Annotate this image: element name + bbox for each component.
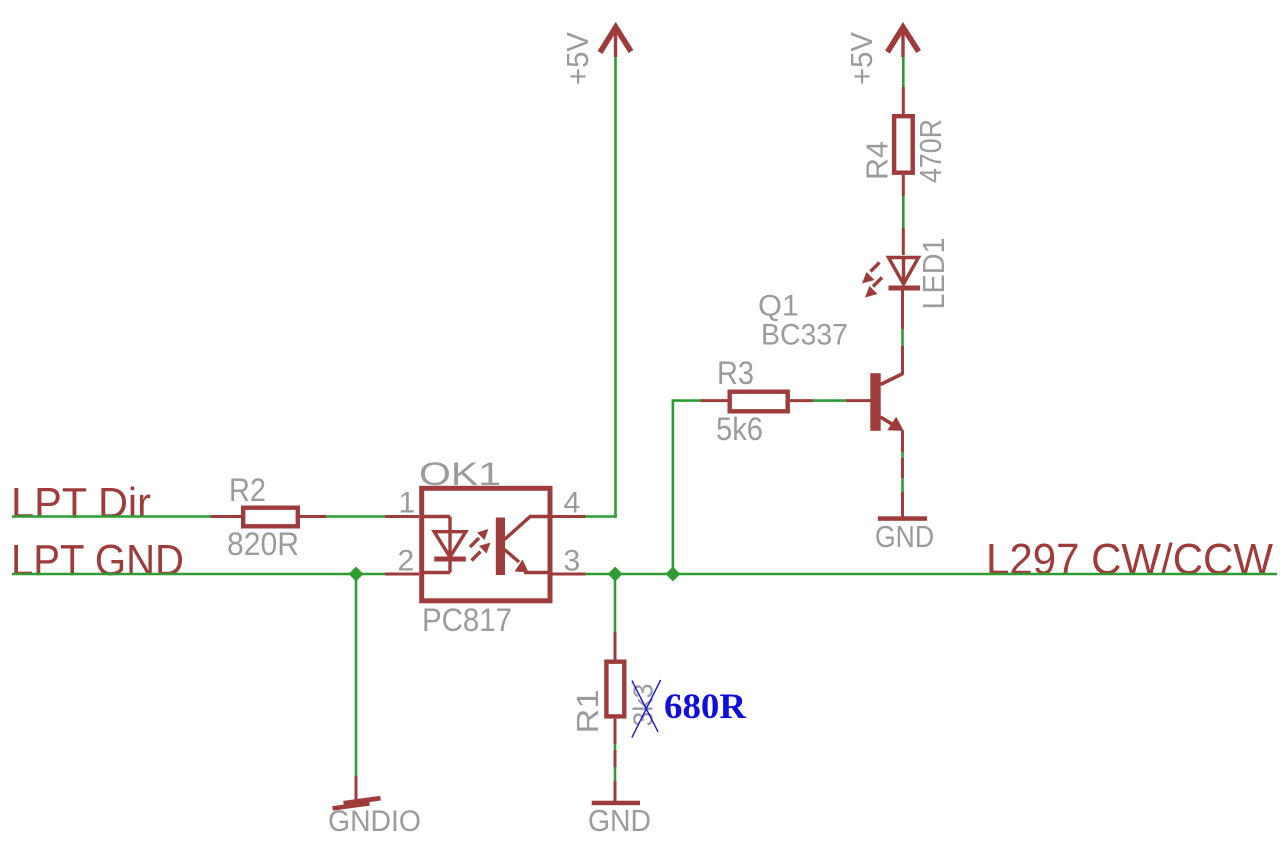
wire R1 drop [614, 576, 617, 632]
svg-text:GND: GND [875, 519, 934, 554]
OK1 internal LED cathode bar [434, 557, 466, 562]
label PC817 [422, 602, 512, 638]
LED LED1 emission arrow lower [865, 278, 882, 298]
pin number 2 [398, 545, 415, 578]
value 3k3 crossed out [628, 684, 659, 727]
label R1 [570, 690, 605, 734]
pin number 1 [399, 487, 416, 520]
wire R1 top lead [614, 632, 617, 660]
annotation 680R blue [664, 686, 747, 726]
ground symbol GND under R1 [592, 801, 640, 806]
net label LPT GND [11, 536, 184, 585]
wire R3 riser top [673, 399, 702, 402]
svg-text:BC337: BC337 [761, 319, 848, 352]
label BC337 [761, 319, 848, 352]
svg-text:+5V: +5V [844, 32, 879, 85]
OK1 internal LED cathode wire [421, 561, 450, 573]
label OK1 [419, 456, 501, 492]
svg-text:4: 4 [564, 487, 581, 520]
wire R2 right pin lead [300, 515, 326, 518]
OK1 light arrow upper [470, 529, 489, 547]
label +5V left [560, 32, 595, 85]
resistor R3 [730, 392, 788, 412]
resistor R2 [243, 508, 298, 527]
label R3 [717, 355, 754, 391]
wire R1 bottom lead [614, 719, 617, 801]
svg-text:OK1: OK1 [419, 456, 501, 492]
resistor R1 [606, 662, 624, 717]
value 470R [913, 119, 948, 183]
LED LED1 triangle [889, 258, 919, 285]
OK1 internal LED triangle [434, 532, 466, 557]
label LED1 [916, 238, 951, 310]
svg-text:L297 CW/CCW: L297 CW/CCW [986, 535, 1273, 584]
power symbol +5V left [600, 27, 631, 57]
svg-text:470R: 470R [913, 119, 948, 183]
pin stub GNDIO [355, 776, 358, 802]
wire R3 riser [672, 399, 675, 574]
svg-text:PC817: PC817 [422, 602, 512, 638]
pin stub OK1 pin 4 [552, 515, 586, 518]
pin stub OK1 pin 1 [385, 515, 419, 518]
pin stub OK1 pin 3 [552, 573, 586, 576]
wire GNDIO drop [355, 576, 358, 776]
LED LED1 emission arrow upper [862, 263, 880, 284]
transistor Q1 collector [881, 288, 904, 385]
svg-text:2: 2 [398, 545, 415, 578]
label GND under Q1 [875, 519, 934, 554]
svg-text:+5V: +5V [560, 32, 595, 85]
OK1 internal LED anode wire [421, 517, 450, 534]
wire LPT GND rail [12, 573, 404, 576]
svg-text:680R: 680R [664, 686, 747, 726]
label R2 [229, 472, 266, 508]
resistor R4 [894, 116, 913, 173]
OK1 light arrow lower [472, 543, 491, 561]
svg-text:R2: R2 [229, 472, 266, 508]
svg-text:LED1: LED1 [916, 238, 951, 310]
svg-text:GNDIO: GNDIO [328, 805, 421, 838]
wire R3 right lead [790, 399, 813, 402]
svg-text:R4: R4 [860, 141, 895, 180]
cross-out X blue [632, 680, 661, 738]
OK1 phototransistor bar [496, 518, 505, 576]
svg-text:LPT Dir: LPT Dir [11, 480, 151, 528]
transistor Q1 emitter [881, 417, 904, 517]
value 5k6 [716, 411, 763, 447]
junction R1 drop [609, 568, 622, 581]
svg-text:1: 1 [399, 487, 416, 520]
LED LED1 cathode bar [889, 286, 921, 291]
wire R2 to OK1 pin 1 [326, 515, 386, 518]
wire pin 4 to +5V column [586, 515, 617, 518]
pin number 3 [564, 545, 581, 578]
wire R2 left pin lead [211, 515, 241, 518]
power symbol +5V right [888, 27, 919, 57]
pin stub Q1 base [846, 399, 871, 402]
optocoupler OK1 box [422, 488, 550, 601]
label R4 [860, 141, 895, 180]
wire LED1 to R4 [902, 175, 905, 255]
net label LPT Dir [11, 480, 151, 528]
transistor Q1 base bar [870, 373, 880, 431]
pin number 4 [564, 487, 581, 520]
pin stub OK1 pin 2 [385, 573, 419, 576]
wire +5V column [614, 57, 617, 518]
ground symbol GNDIO [333, 798, 381, 808]
junction GNDIO drop [350, 568, 363, 581]
wire R3 to Q1 base [813, 399, 847, 402]
wire R3 left lead [701, 399, 728, 402]
label Q1 [758, 290, 799, 323]
ground symbol GND under Q1 [878, 516, 927, 521]
svg-text:GND: GND [588, 803, 651, 838]
svg-text:3k3: 3k3 [628, 684, 659, 727]
value 820R [227, 526, 299, 562]
OK1 phototransistor collector [505, 516, 551, 539]
svg-text:R1: R1 [570, 690, 605, 734]
svg-text:820R: 820R [227, 526, 299, 562]
junction R3 riser [667, 568, 680, 581]
svg-text:LPT GND: LPT GND [11, 536, 184, 585]
svg-text:5k6: 5k6 [716, 411, 763, 447]
label +5V right [844, 32, 879, 85]
wire R4 to +5V [902, 56, 905, 114]
svg-text:R3: R3 [717, 355, 754, 391]
wire pin 3 to L297 [585, 573, 1277, 576]
OK1 phototransistor emitter [505, 550, 551, 573]
wire LPT Dir rail left segment [12, 515, 213, 518]
net label L297 CW/CCW [986, 535, 1273, 584]
label GND under R1 [588, 803, 651, 838]
label GNDIO [328, 805, 421, 838]
